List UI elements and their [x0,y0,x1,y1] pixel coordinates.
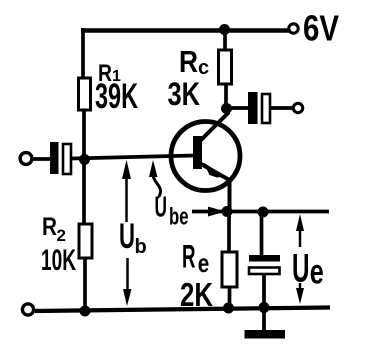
svg-text:R: R [182,239,196,275]
svg-text:10K: 10K [41,244,76,277]
svg-text:be: be [169,204,189,231]
svg-text:R: R [179,44,198,79]
svg-text:U: U [292,247,310,291]
svg-text:b: b [135,236,147,258]
svg-text:U: U [119,217,135,256]
svg-text:39K: 39K [95,77,138,116]
svg-text:e: e [198,248,210,278]
svg-text:R: R [42,213,57,241]
svg-text:6V: 6V [303,8,340,49]
svg-text:e: e [310,253,324,292]
svg-text:U: U [155,192,168,224]
svg-text:2: 2 [57,226,66,245]
svg-text:3K: 3K [168,76,201,112]
svg-text:2K: 2K [180,276,213,313]
